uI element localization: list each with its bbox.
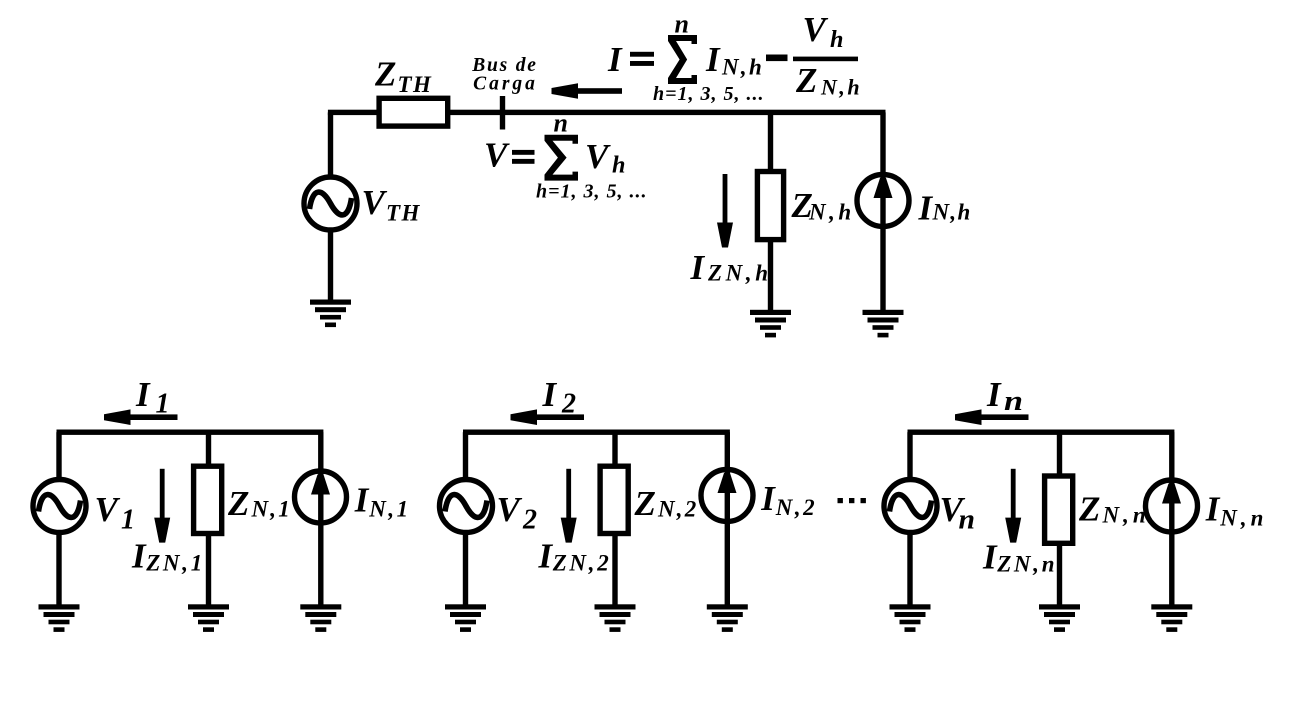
arrow current I into bus (552, 83, 623, 99)
current source I_N,2 (701, 470, 753, 522)
ground (Z_N,1 ground) (188, 604, 229, 632)
svg-text:ZN,1: ZN,1 (145, 551, 205, 576)
arrow current I_2 (511, 409, 585, 425)
resistor Z_N,h (757, 172, 783, 240)
fraction V_h numerator (803, 10, 844, 53)
svg-text:n: n (675, 10, 689, 39)
svg-text:I: I (705, 40, 721, 79)
label I_2 label (542, 375, 577, 419)
ground (Z_N,h ground) (750, 310, 791, 338)
label I_n label (986, 375, 1023, 417)
wire top rail circuit 2 (463, 430, 730, 435)
label I_ZN,h label (690, 248, 772, 287)
svg-text:I: I (542, 375, 558, 414)
label V_2 label (497, 490, 538, 535)
svg-text:I: I (760, 479, 776, 518)
svg-text:I: I (354, 480, 370, 519)
svg-text:2: 2 (561, 388, 576, 419)
I_N,h term (705, 40, 764, 80)
wire Z_N,n to ground (1057, 544, 1062, 607)
svg-text:n: n (554, 109, 568, 138)
current source I_N,1 (295, 471, 347, 523)
svg-text:N,h: N,h (820, 74, 862, 99)
summation sigma (V formula) (545, 135, 579, 181)
wire top rail circuit 1 (57, 430, 324, 435)
svg-text:I: I (918, 189, 934, 228)
voltage source V_TH (304, 177, 357, 230)
label I_ZN,2 label (538, 537, 612, 576)
svg-text:V: V (497, 490, 523, 529)
wire Z_N,2 riser (612, 432, 617, 468)
svg-text:N,1: N,1 (368, 497, 410, 522)
minus sign (766, 55, 788, 62)
svg-text:N,2: N,2 (775, 495, 817, 520)
label I_N,2 label (760, 479, 817, 520)
svg-text:N,n: N,n (1219, 506, 1267, 531)
arrow I_ZN,h current (717, 174, 733, 248)
resistor Z_N,2 (600, 466, 628, 533)
svg-text:V: V (95, 490, 121, 529)
wire V_n riser (907, 432, 912, 480)
svg-text:TH: TH (386, 201, 421, 226)
wire Z_N,h to ground (768, 240, 773, 312)
label V_1 label (95, 490, 136, 535)
voltage source V_n (884, 480, 937, 533)
label I_ZN,n label (982, 538, 1057, 577)
label V_TH label (362, 183, 421, 226)
ground (I_N,2 ground) (707, 604, 748, 632)
arrow I_ZN,n current (1005, 469, 1021, 543)
wire Z_N,1 to ground (206, 534, 211, 607)
svg-text:h=1, 3, 5, ...: h=1, 3, 5, ... (536, 181, 648, 203)
arrow current I_1 (104, 409, 178, 425)
svg-text:TH: TH (398, 72, 433, 97)
label I_N,1 label (354, 480, 411, 521)
svg-text:I: I (135, 375, 151, 414)
svg-text:I: I (538, 537, 554, 576)
svg-text:n: n (1004, 386, 1023, 417)
svg-text:I: I (607, 40, 623, 79)
current source I_N,n (1146, 480, 1198, 532)
wire top rail circuit n (908, 430, 1175, 435)
svg-text:Z: Z (374, 55, 396, 94)
svg-text:h=1, 3, 5, ...: h=1, 3, 5, ... (653, 83, 765, 105)
svg-text:ZN,n: ZN,n (996, 551, 1057, 576)
svg-text:N,h: N,h (808, 200, 855, 225)
label Z_N,1 label (227, 484, 292, 523)
wire V_1 riser (56, 432, 61, 480)
svg-text:h: h (830, 27, 844, 53)
resistor Z_N,n (1045, 476, 1073, 543)
current source I_N,h (857, 175, 909, 227)
wire junction to Z_N,h (768, 112, 773, 172)
arrow current I_n (955, 409, 1029, 425)
wire V_2 riser (463, 432, 468, 480)
formula I = sum_(h=1,3,5,...)^n I_N,h - V_h/Z_N,h (607, 40, 654, 79)
svg-text:N,h: N,h (721, 54, 764, 79)
svg-text:V: V (362, 183, 388, 222)
svg-text:V: V (484, 135, 510, 174)
svg-text:n: n (959, 504, 976, 535)
wire I_N,n branch (1169, 432, 1174, 607)
svg-text:Z: Z (1078, 490, 1100, 529)
svg-text:2: 2 (522, 504, 537, 535)
svg-text:V: V (585, 137, 611, 176)
wire V_n to ground (907, 531, 912, 607)
ground (I_N,h ground) (863, 310, 904, 338)
wire I_N,1 branch (318, 432, 323, 607)
label I_ZN,1 label (131, 537, 205, 576)
wire V_1 to ground (56, 531, 61, 607)
svg-text:1: 1 (156, 388, 170, 419)
wire Z_N,1 riser (206, 432, 211, 468)
svg-text:Z: Z (227, 484, 249, 523)
ground (V_n ground) (890, 604, 931, 632)
svg-text:N,n: N,n (1102, 502, 1150, 527)
voltage source V_1 (33, 480, 86, 533)
ground (Z_N,n ground) (1039, 604, 1080, 632)
ground (I_N,n ground) (1151, 604, 1192, 632)
ground (Z_N,2 ground) (595, 604, 636, 632)
V_h term (585, 137, 626, 178)
svg-text:I: I (131, 537, 147, 576)
wire V_2 to ground (463, 531, 468, 607)
svg-text:ZN,2: ZN,2 (552, 551, 612, 576)
ground (I_N,1 ground) (300, 604, 341, 632)
label Bus de Carga (471, 55, 538, 95)
label I_N,h label (918, 189, 972, 228)
label Z_N,h label (791, 186, 855, 225)
ground (V_TH ground) (310, 300, 351, 328)
ground (V_1 ground) (39, 604, 80, 632)
svg-text:1: 1 (121, 504, 135, 535)
ground (V_2 ground) (445, 604, 486, 632)
resistor Z_TH (379, 98, 448, 126)
arrow I_ZN,2 current (561, 469, 577, 543)
wire left riser to Z_TH (328, 112, 333, 178)
label I_N,n label (1205, 489, 1268, 530)
bus tick (Bus de Carga node) (500, 96, 505, 130)
svg-text:I: I (982, 538, 998, 577)
svg-text:I: I (986, 375, 1002, 414)
ellipsis dots between circuit 2 and n (838, 498, 866, 503)
svg-text:ZN,h: ZN,h (707, 261, 772, 286)
fraction Z_N,h denominator (795, 61, 862, 100)
formula V = sum_(h=1,3,5,...)^n V_h (484, 135, 535, 174)
svg-text:Z: Z (634, 484, 656, 523)
label I_1 label (135, 375, 170, 419)
svg-text:V: V (803, 10, 829, 49)
voltage source V_2 (440, 480, 493, 533)
summation sigma (I formula) (668, 35, 697, 84)
svg-text:N,1: N,1 (251, 497, 292, 522)
label Z_N,2 label (634, 484, 699, 523)
svg-text:I: I (1205, 489, 1221, 528)
wire right branch through I_N,h (880, 112, 885, 312)
svg-text:N,h: N,h (932, 200, 972, 225)
svg-text:Carga: Carga (473, 74, 538, 95)
svg-text:Z: Z (795, 61, 817, 100)
svg-text:I: I (690, 248, 706, 287)
wire I_N,2 branch (725, 432, 730, 607)
wire Z_N,2 to ground (612, 534, 617, 607)
label Z_N,n label (1078, 490, 1150, 529)
wire top bus horizontal (328, 110, 886, 115)
label V_n label (940, 490, 976, 535)
svg-text:N,2: N,2 (657, 497, 698, 522)
wire Z_N,n riser (1057, 432, 1062, 478)
fraction bar (793, 57, 858, 62)
resistor Z_N,1 (194, 466, 222, 533)
svg-text:h: h (612, 153, 626, 179)
label Z_TH label (374, 55, 432, 97)
wire V_TH to ground (328, 229, 333, 302)
arrow I_ZN,1 current (154, 469, 170, 543)
